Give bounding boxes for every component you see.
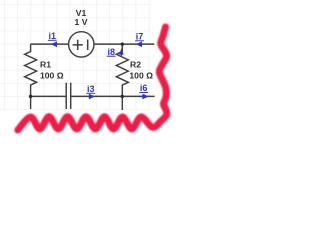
node C junction dot xyxy=(121,95,125,99)
current label i8 xyxy=(107,47,124,57)
node B junction dot xyxy=(121,42,125,46)
svg-text:100 Ω: 100 Ω xyxy=(129,70,153,80)
wire capacitor to bottom-right xyxy=(71,95,155,97)
svg-text:R1: R1 xyxy=(40,60,51,70)
capacitor C1 xyxy=(66,83,71,109)
current label i6 xyxy=(138,83,148,99)
current label i1 xyxy=(48,31,57,47)
current label i3 xyxy=(86,84,95,100)
current label i7 xyxy=(135,31,144,47)
grid background xyxy=(0,0,151,110)
node A junction dot xyxy=(29,95,32,99)
resistor R1 xyxy=(25,44,37,96)
wire top-left horizontal xyxy=(31,43,68,45)
wire top-right horizontal xyxy=(95,43,155,45)
svg-text:i6: i6 xyxy=(140,83,148,93)
resistor R2 xyxy=(116,44,128,96)
svg-text:i7: i7 xyxy=(136,31,144,41)
svg-text:i3: i3 xyxy=(87,84,95,94)
voltage source V1 xyxy=(69,32,94,57)
wire bottom-left to capacitor xyxy=(31,95,67,97)
wire stub below R1 node xyxy=(30,96,32,109)
red marker squiggle annotation xyxy=(18,27,167,130)
svg-text:1 V: 1 V xyxy=(75,17,88,27)
svg-text:100 Ω: 100 Ω xyxy=(40,70,64,80)
svg-text:i8: i8 xyxy=(107,47,115,57)
svg-text:i1: i1 xyxy=(48,31,56,41)
svg-text:R2: R2 xyxy=(130,60,141,70)
wire stub below R2 node xyxy=(121,96,123,110)
